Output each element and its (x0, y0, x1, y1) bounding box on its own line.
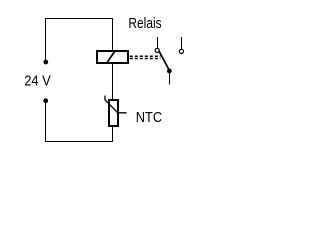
contact terminal left (NC) (155, 37, 159, 53)
svg-text:24 V: 24 V (24, 73, 51, 90)
switch pivot node (167, 69, 172, 74)
node: 24V source upper terminal (43, 60, 48, 65)
switch arm (159, 51, 169, 71)
wire: relay coil to NTC (112, 64, 114, 100)
contact terminal right (NO) (179, 37, 183, 54)
wire: below switch pivot (169, 73, 171, 84)
wire: top from left branch corner to right branch (46, 19, 113, 60)
wire: bottom from lower terminal to NTC bottom (46, 103, 113, 142)
svg-text:NTC: NTC (136, 109, 162, 126)
mechanical linkage (double dashed line coil to contact) (130, 56, 161, 58)
thermistor NTC R1 (105, 96, 127, 127)
relay coil K1 (rectangle with slash) (97, 51, 128, 63)
node: 24V source lower terminal (43, 98, 48, 103)
svg-text:Relais: Relais (128, 15, 161, 32)
